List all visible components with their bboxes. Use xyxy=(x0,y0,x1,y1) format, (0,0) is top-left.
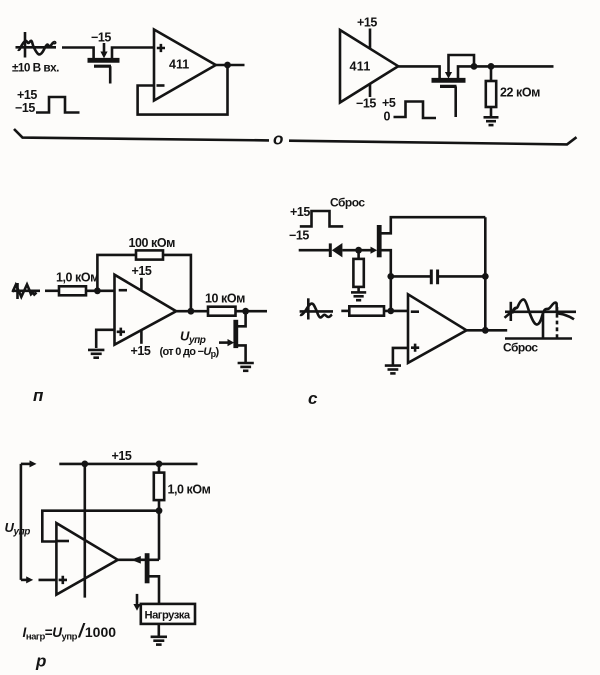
U5 minus input mark xyxy=(58,540,70,543)
feedback wire xyxy=(138,65,228,115)
U1 plus input mark xyxy=(157,44,165,52)
transistor Q3 drain lead xyxy=(238,311,246,326)
junction dot A xyxy=(471,63,478,70)
svg-text:Нагрузка: Нагрузка xyxy=(145,609,191,621)
svg-text:+15: +15 xyxy=(131,344,151,358)
rail junction dot xyxy=(81,461,88,468)
U3 minus input mark xyxy=(119,289,127,292)
resistor R3 100 кОм body xyxy=(136,250,163,259)
Q5 source lead xyxy=(149,576,159,604)
Q3 source lead xyxy=(238,345,246,362)
op-amp U3 xyxy=(115,275,177,345)
diode D1 body xyxy=(332,243,343,257)
gate tie loop xyxy=(449,55,475,76)
Q2 source wire to output xyxy=(458,66,554,78)
svg-text:+15: +15 xyxy=(17,88,37,102)
output wire xyxy=(467,329,508,332)
svg-text:Сброс: Сброс xyxy=(330,195,365,209)
U4 plus input mark xyxy=(411,344,419,352)
U5 plus input mark xyxy=(59,576,67,584)
resistor R1 22 kOm lead xyxy=(490,66,493,81)
resistor R5 upper lead xyxy=(357,250,360,259)
wire input to Q1 drain xyxy=(62,48,94,59)
U2 V- pin xyxy=(369,84,372,97)
svg-text:±10 В вх.: ±10 В вх. xyxy=(12,61,59,75)
Uупр bracket vertical xyxy=(20,464,23,580)
junction dot xyxy=(156,507,163,514)
svg-text:−15: −15 xyxy=(356,97,376,111)
junction dot xyxy=(94,287,101,294)
plus input ground wire xyxy=(96,330,114,348)
svg-text:п: п xyxy=(33,386,44,405)
ground below load xyxy=(151,637,167,645)
Q4 gate arrow head xyxy=(371,247,378,254)
output waveform axis xyxy=(505,299,577,324)
svg-text:10 кОм: 10 кОм xyxy=(205,292,245,306)
wire to R2 xyxy=(45,289,59,292)
svg-text:Uупр: Uупр xyxy=(5,520,31,538)
U3 plus input mark xyxy=(117,328,125,336)
wire to R6 xyxy=(341,310,349,313)
svg-text:+15: +15 xyxy=(357,16,377,30)
junction dot B xyxy=(488,63,495,70)
resistor R6 body xyxy=(349,306,384,315)
U1 minus input mark xyxy=(157,84,165,87)
svg-text:+15: +15 xyxy=(132,264,152,278)
junction dot xyxy=(387,273,394,280)
Q4 drain lead + top loop xyxy=(381,217,485,233)
ground below R5 xyxy=(351,292,366,300)
reset interval line solid xyxy=(542,313,545,339)
resistor R5 body xyxy=(353,259,363,287)
Q1 gate lead xyxy=(109,66,112,83)
svg-text:Uупр: Uупр xyxy=(180,329,206,347)
transistor Q2 channel xyxy=(432,78,466,83)
wire to plus input xyxy=(39,579,57,582)
transistor Q4 channel xyxy=(377,225,382,257)
svg-text:Сброс: Сброс xyxy=(503,341,538,355)
output wire xyxy=(216,64,245,67)
op-amp U4 xyxy=(408,294,467,363)
wire D1 to gate xyxy=(342,249,370,252)
svg-text:1,0 кОм: 1,0 кОм xyxy=(56,271,99,285)
transistor Q5 channel xyxy=(145,553,150,583)
svg-text:411: 411 xyxy=(350,60,371,74)
junction dot xyxy=(482,273,489,280)
feedback wire down to output xyxy=(163,255,191,311)
svg-text:22 кОм: 22 кОм xyxy=(500,86,540,100)
U2 V+ pin xyxy=(369,29,372,49)
supply line through op-amp xyxy=(84,464,87,598)
U3 V+ pin xyxy=(140,278,143,291)
wire R2 to U3 xyxy=(86,289,115,292)
wire R6 to U4 xyxy=(384,310,408,313)
svg-text:+5: +5 xyxy=(382,96,396,110)
rail junction dot xyxy=(156,461,163,468)
resistor R7 1,0 кОм body xyxy=(154,473,164,501)
Q2 gate lead xyxy=(454,86,457,117)
-15 gate drive arrow xyxy=(103,43,106,53)
op-amp U2 (411) xyxy=(340,30,398,103)
load current arrow xyxy=(136,594,139,605)
U3 V- pin xyxy=(140,330,143,344)
junction dot xyxy=(224,62,231,69)
input waveform ±10V xyxy=(16,32,57,58)
wire below load xyxy=(158,624,161,637)
resistor R4 10 кОм body xyxy=(208,307,236,316)
ground below R1 xyxy=(484,117,499,125)
junction dot xyxy=(387,308,394,315)
input waveform sine xyxy=(12,283,40,299)
output wire xyxy=(176,310,208,313)
svg-text:1,0 кОм: 1,0 кОм xyxy=(168,483,211,497)
+15 supply rail xyxy=(59,463,197,466)
svg-text:о: о xyxy=(273,130,283,149)
input wire to D1 xyxy=(299,249,330,252)
diode D1 cathode bar xyxy=(329,243,332,257)
transistor Q1 channel xyxy=(88,58,120,63)
U5 output wire to Q5 gate xyxy=(118,558,159,561)
svg-text:−15: −15 xyxy=(289,229,309,243)
svg-text:−15: −15 xyxy=(15,101,35,115)
resistor R2 1,0 кОм body xyxy=(59,286,86,295)
reset interval line dashed xyxy=(556,307,559,339)
ground xyxy=(88,350,104,358)
svg-text:(от 0 до −Uр): (от 0 до −Uр) xyxy=(160,346,220,359)
underbrace left part xyxy=(14,129,269,140)
Uупр top arrow xyxy=(21,463,31,466)
svg-text:с: с xyxy=(308,389,318,408)
junction dot xyxy=(242,308,249,315)
Q1 gate bar xyxy=(94,65,111,68)
output waveform curve xyxy=(512,299,574,324)
svg-text:0: 0 xyxy=(384,110,391,124)
resistor R7 upper lead xyxy=(158,464,161,473)
feedback vertical wire xyxy=(484,217,487,330)
capacitor C1 plates xyxy=(431,270,437,285)
svg-text:р: р xyxy=(35,652,46,671)
svg-text:100 кОм: 100 кОм xyxy=(129,236,176,250)
capacitor C1 left lead xyxy=(391,275,430,278)
U4 minus input mark xyxy=(411,310,419,313)
plus input ground wire xyxy=(393,348,408,366)
underbrace right part xyxy=(289,137,577,144)
input waveform xyxy=(300,298,333,319)
Q3 gate wire xyxy=(219,341,229,344)
load box Нагрузка xyxy=(141,604,195,624)
svg-text:+15: +15 xyxy=(290,205,310,219)
gate arrow head xyxy=(445,72,452,79)
wire Q1 source to U1 xyxy=(112,48,154,59)
resistor R1 lower lead xyxy=(490,107,493,117)
junction dot xyxy=(482,327,489,334)
svg-text:411: 411 xyxy=(169,58,189,72)
wire R4 to output xyxy=(236,310,268,313)
resistor R7 lower lead down to Q5 drain xyxy=(158,500,161,560)
ground xyxy=(385,366,401,374)
svg-text:−15: −15 xyxy=(91,31,111,45)
Q3 channel xyxy=(233,320,238,348)
Uупр bottom arrow xyxy=(21,579,27,582)
capacitor C1 right lead xyxy=(439,275,485,278)
resistor R5 lower lead xyxy=(357,287,360,292)
resistor R1 22 kOm body xyxy=(486,81,496,107)
wire U2 out to Q2 drain xyxy=(398,66,439,78)
baseline xyxy=(505,337,572,340)
Q2 gate bar xyxy=(440,85,457,88)
Q5 gate arrow head pointing left xyxy=(131,556,141,564)
op-amp U5 xyxy=(56,523,117,595)
svg-text:Iнагр=Uупр/1000: Iнагр=Uупр/1000 xyxy=(23,621,117,643)
Q4 source lead + summing wire xyxy=(381,250,391,311)
output junction dot xyxy=(188,308,195,315)
feedback wire up xyxy=(97,255,136,291)
Q3 gate arrow head xyxy=(228,339,235,346)
svg-text:+15: +15 xyxy=(112,449,132,463)
ground below Q3 xyxy=(238,363,254,371)
feedback wire xyxy=(42,511,159,542)
op-amp U1 (411) xyxy=(154,30,216,101)
junction dot xyxy=(355,247,362,254)
